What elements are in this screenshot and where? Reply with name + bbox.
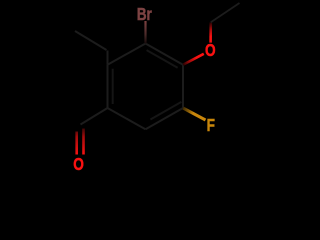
wire ring bond V3-V4: [146, 108, 184, 129]
bond O to CH2: [209, 22, 212, 42]
aldehyde C=O double bond line 1: [75, 132, 78, 155]
wire ring bond V1-V2: [146, 44, 184, 65]
bond CH2 to CH3: [211, 3, 240, 22]
bond V3 to F: [183, 108, 206, 120]
svg-text:O: O: [73, 155, 84, 174]
wire ring inner double line V5-V6: [112, 69, 114, 104]
svg-text:F: F: [207, 117, 216, 136]
wire ring inner double line V3-V4: [150, 102, 181, 120]
bond V5 to aldehyde C: [81, 108, 108, 125]
wire ring bond V6-V1: [108, 44, 146, 65]
bond to Br: [144, 21, 146, 44]
wire ring inner double line V1-V2: [147, 50, 178, 68]
wire ring bond V4-V5: [108, 108, 146, 129]
wire stub vertical joiner: [107, 51, 109, 65]
svg-text:Br: Br: [137, 6, 152, 25]
wire ring bond V2-V3: [182, 65, 184, 108]
wire stub top-left: [75, 31, 107, 50]
wire ring bond V5-V6: [107, 65, 109, 108]
bond V2 to O (ether): [183, 54, 204, 65]
svg-text:O: O: [205, 42, 216, 61]
aldehyde C=O double bond line 2: [82, 129, 85, 155]
chemical structure: benzaldehyde ring with Br, OEt, F substituents: [0, 0, 300, 176]
